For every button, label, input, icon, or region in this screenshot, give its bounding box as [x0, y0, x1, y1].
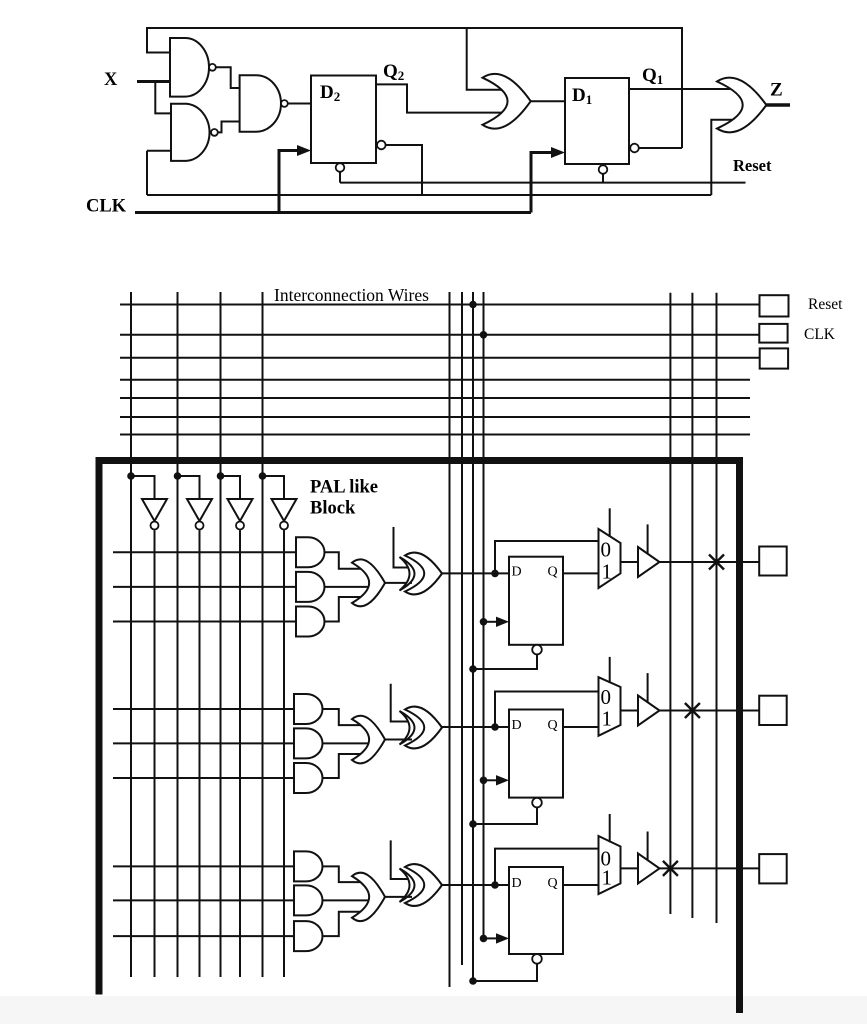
- svg-text:X: X: [104, 70, 118, 90]
- svg-text:Q: Q: [548, 718, 558, 733]
- inverter I2: [187, 499, 212, 521]
- mux M2: [599, 677, 621, 736]
- wire interconnect column L3: [220, 292, 222, 977]
- wire net Q1-bar feedback top: [147, 28, 682, 148]
- svg-text:D: D: [512, 718, 522, 733]
- wire branch to mux 0 input 3: [495, 849, 599, 885]
- wire interconnect column L2: [177, 292, 179, 977]
- node CLK tap: [480, 331, 488, 339]
- or gate O2: [352, 716, 385, 764]
- wire and 1.2 out: [325, 586, 369, 588]
- wire and 3.1 out: [323, 866, 363, 882]
- wire Q to mux 1 input 2: [563, 726, 599, 728]
- or gate O3: [352, 873, 385, 921]
- wire U5 lower input: [711, 120, 735, 195]
- programmed cross X1: [709, 555, 724, 570]
- wire output row 1: [660, 561, 760, 563]
- wire product term 3.1 input line: [113, 865, 298, 867]
- svg-text:Reset: Reset: [808, 296, 843, 313]
- wire D1 clear to Reset net: [602, 174, 604, 183]
- wire and 1.1 out: [325, 552, 363, 568]
- svg-text:1: 1: [602, 707, 613, 731]
- wire G2 in to Qbar2 net: [146, 151, 148, 195]
- wire xor 3 top input stub: [391, 840, 412, 879]
- wire interconnect row 2: [120, 334, 759, 336]
- svg-text:1: 1: [602, 560, 613, 584]
- or gate O1: [352, 559, 385, 606]
- wire product term 2.1 input line: [113, 708, 298, 710]
- tristate buffer B3: [638, 853, 660, 883]
- svg-text:0: 0: [601, 685, 612, 709]
- wire tap to inverter 4: [263, 476, 285, 499]
- wire G2 out to G3: [218, 122, 241, 133]
- svg-text:Q: Q: [548, 565, 558, 580]
- wire clock to FF2: [484, 779, 499, 781]
- wire and 2.3 out: [323, 754, 363, 778]
- node input tap 1: [127, 472, 135, 480]
- wire buffer enable stub 2: [647, 673, 649, 702]
- wire product term 1.1 input line: [113, 551, 300, 553]
- wire branch to mux 0 input 1: [495, 541, 599, 573]
- wire G1 out to G3: [216, 67, 241, 88]
- tristate buffer B1: [638, 547, 660, 577]
- output box 2: [759, 696, 787, 725]
- svg-text:PAL like: PAL like: [310, 478, 378, 498]
- wire input X: [137, 80, 171, 83]
- wire tap to inverter 1: [131, 476, 155, 499]
- wire mux select stub 2: [609, 657, 611, 683]
- or gate U4: [483, 74, 531, 129]
- tristate buffer B2: [638, 696, 660, 726]
- flip-flop FF2: [509, 710, 563, 798]
- svg-text:Reset: Reset: [733, 156, 772, 175]
- node reset tap 1: [469, 665, 477, 673]
- wire output row 3: [660, 867, 760, 869]
- wire buffer enable stub 3: [647, 832, 649, 861]
- dff D1 Qbar bubble: [630, 144, 639, 153]
- wire product term 2.2 input line: [113, 742, 298, 744]
- node input tap 3: [217, 472, 225, 480]
- svg-text:Z: Z: [770, 80, 783, 101]
- and gate A21: [294, 694, 323, 724]
- wire interconnect column L1: [130, 292, 132, 977]
- wire and 2.2 out: [323, 742, 369, 744]
- pin box CLK: [759, 324, 787, 343]
- node input tap 4: [259, 472, 267, 480]
- wire interconnect row 5: [120, 397, 750, 399]
- wire product term 2.3 input line: [113, 777, 298, 779]
- wire product term 3.2 input line: [113, 899, 298, 901]
- wire interconnect column M2: [461, 292, 463, 965]
- wire Q1-bar to feedback: [639, 147, 682, 149]
- flip-flop FF1: [509, 557, 563, 645]
- wire inverter 1 output column: [154, 530, 156, 977]
- svg-text:Q: Q: [548, 876, 558, 891]
- nand gate G2: [171, 104, 210, 161]
- ff clear bubble 3: [532, 954, 542, 964]
- node mux branch 1: [491, 570, 499, 578]
- dff D2 clock wire: [279, 151, 298, 213]
- pin box Reset: [760, 295, 789, 316]
- and gate A11: [296, 537, 325, 567]
- svg-text:Block: Block: [310, 499, 356, 519]
- wire or 1 out: [385, 582, 412, 584]
- bottom page edge strip: [0, 996, 867, 1024]
- wire interconnect column M1: [449, 292, 451, 987]
- wire buffer enable stub 1: [647, 524, 649, 553]
- wire or 3 out: [385, 896, 412, 898]
- wire interconnect row 7: [120, 434, 750, 436]
- wire and 3.3 out: [323, 912, 363, 936]
- dff D1 clock wire: [531, 153, 552, 213]
- dff D2 clear bubble: [336, 163, 345, 172]
- wire Reset column M3: [472, 292, 474, 982]
- nand gate G3: [240, 75, 281, 131]
- wire xor 2 out to D: [442, 726, 509, 728]
- ff clear bubble 1: [532, 645, 542, 655]
- wire Q2 to OR-U4: [376, 84, 503, 112]
- wire Q2-bar to net: [386, 145, 422, 195]
- wire feedback column R1: [669, 293, 671, 914]
- wire xor 3 out to D: [442, 884, 509, 886]
- wire CLK: [135, 211, 531, 214]
- wire and 2.1 out: [323, 709, 363, 725]
- wire clear to reset column 2: [473, 807, 537, 824]
- wire Z output: [766, 103, 790, 106]
- mux M3: [599, 836, 621, 894]
- wire and 3.2 out: [323, 899, 369, 901]
- wire inverter 3 output column: [239, 530, 241, 977]
- node mux branch 3: [491, 881, 499, 889]
- nand gate G1: [170, 38, 209, 97]
- wire output row 2: [660, 710, 760, 712]
- wire mux out 2: [621, 710, 640, 712]
- and gate A31: [294, 851, 323, 881]
- wire inverter 4 output column: [283, 530, 285, 977]
- wire tap to inverter 3: [221, 476, 241, 499]
- wire OR-U4 top input from feedback: [467, 28, 503, 90]
- xor gate X3: [405, 864, 442, 906]
- wire clock to FF1: [484, 621, 499, 623]
- wire clear to reset column 3: [473, 964, 537, 981]
- and gate A13: [296, 607, 325, 637]
- svg-text:CLK: CLK: [804, 326, 836, 343]
- wire or 2 out: [385, 739, 412, 741]
- wire branch to mux 0 input 2: [495, 692, 599, 728]
- inverter I3: [228, 499, 253, 521]
- node Reset tap: [469, 301, 477, 309]
- svg-text:D: D: [512, 876, 522, 891]
- wire CLK column M4: [483, 292, 485, 938]
- wire Q1 to OR-U5: [629, 88, 730, 90]
- and gate A33: [294, 921, 323, 951]
- and gate A12: [296, 572, 325, 602]
- wire feedback column R3: [716, 293, 718, 923]
- wire product term 1.2 input line: [113, 586, 300, 588]
- xor gate X1: [405, 553, 442, 595]
- pin box input 3: [760, 348, 788, 368]
- dff D2 Qbar bubble: [377, 141, 386, 150]
- output box 3: [759, 854, 787, 883]
- wire interconnect row 1: [120, 304, 760, 306]
- wire feedback column R2: [691, 293, 693, 918]
- node clock tap 2: [480, 777, 488, 785]
- svg-text:Interconnection Wires: Interconnection Wires: [274, 285, 429, 305]
- wire Reset net: [340, 182, 746, 184]
- wire xor 1 out to D: [442, 572, 509, 574]
- node reset tap 3: [469, 977, 477, 985]
- and gate A23: [294, 763, 323, 793]
- wire Q to mux 1 input 3: [563, 884, 599, 886]
- wire interconnect row 6: [120, 416, 750, 418]
- wire clear to reset column 1: [473, 654, 537, 669]
- node reset tap 2: [469, 820, 477, 828]
- inverter I4: [272, 499, 297, 521]
- wire inverter 2 output column: [199, 530, 201, 977]
- xor gate X2: [405, 707, 442, 749]
- wire mux out 3: [621, 867, 640, 869]
- svg-text:D: D: [512, 565, 522, 580]
- flip-flop FF3: [509, 867, 563, 954]
- wire D2 clear to Reset net: [339, 172, 341, 183]
- PAL block border: [99, 461, 740, 1014]
- wire Q to mux 1 input 1: [563, 572, 599, 574]
- wire clock to FF3: [484, 937, 499, 939]
- wire xor 1 top input stub: [394, 527, 413, 568]
- node input tap 2: [174, 472, 182, 480]
- and gate A32: [294, 885, 323, 915]
- wire and 1.3 out: [325, 597, 363, 622]
- wire mux out 1: [621, 561, 640, 563]
- wire interconnect column L4: [262, 292, 264, 977]
- dff D1 clear bubble: [599, 165, 608, 174]
- wire G3 out to D2: [288, 103, 311, 105]
- node clock tap 1: [480, 618, 488, 626]
- svg-text:1: 1: [602, 866, 613, 890]
- inverter I1: [142, 499, 167, 521]
- wire G2 lower input: [147, 150, 171, 152]
- svg-text:0: 0: [601, 538, 612, 562]
- wire mux select stub 3: [609, 814, 611, 842]
- programmed cross X3: [663, 861, 678, 876]
- wire interconnect row 4: [120, 379, 750, 381]
- flip-flop D2: [311, 76, 376, 164]
- wire mux select stub 1: [609, 508, 611, 537]
- node clock tap 3: [480, 935, 488, 943]
- wire tap to inverter 2: [178, 476, 200, 499]
- or gate U5 output Z: [717, 78, 766, 133]
- flip-flop D1: [565, 78, 629, 164]
- programmed cross X2: [685, 703, 700, 718]
- svg-text:CLK: CLK: [86, 197, 127, 217]
- wire xor 2 top input stub: [391, 684, 412, 722]
- wire product term 3.3 input line: [113, 935, 298, 937]
- output box 1: [759, 547, 787, 576]
- wire product term 1.3 input line: [113, 621, 300, 623]
- wire interconnect row 3: [120, 357, 760, 359]
- and gate A22: [294, 728, 323, 758]
- wire U4 out to D1: [531, 100, 565, 102]
- node mux branch 2: [491, 723, 499, 731]
- wire X branch to G2: [155, 82, 173, 114]
- ff clear bubble 2: [532, 798, 542, 808]
- mux M1: [599, 529, 621, 588]
- wire net Q2-bar horizontal: [147, 194, 711, 196]
